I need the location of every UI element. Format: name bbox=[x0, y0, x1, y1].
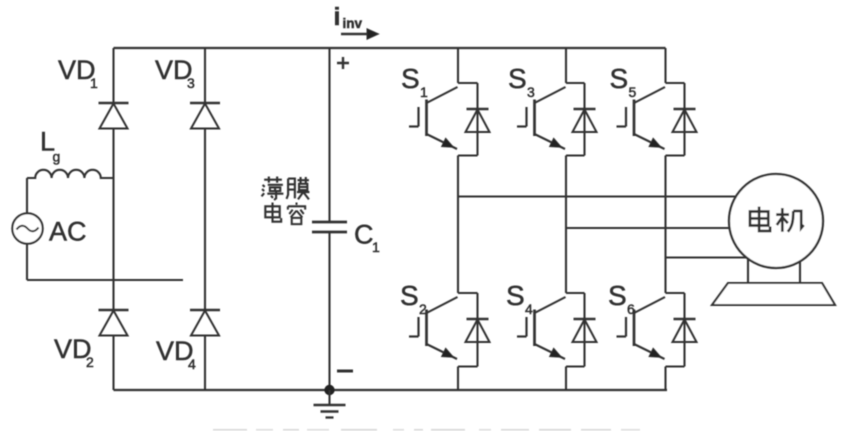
svg-text:C: C bbox=[354, 220, 374, 250]
svg-text:S: S bbox=[610, 63, 629, 94]
svg-text:3: 3 bbox=[527, 84, 535, 100]
svg-text:2: 2 bbox=[86, 354, 94, 370]
svg-text:AC: AC bbox=[49, 217, 87, 247]
svg-text:4: 4 bbox=[188, 356, 196, 372]
svg-text:S: S bbox=[508, 63, 527, 94]
svg-text:i: i bbox=[334, 3, 341, 31]
svg-text:3: 3 bbox=[187, 75, 195, 91]
svg-text:2: 2 bbox=[419, 301, 427, 317]
svg-text:S: S bbox=[400, 280, 419, 311]
svg-text:1: 1 bbox=[372, 239, 380, 255]
svg-text:4: 4 bbox=[525, 301, 533, 317]
svg-text:g: g bbox=[53, 149, 61, 165]
svg-text:inv: inv bbox=[343, 16, 363, 31]
svg-text:1: 1 bbox=[90, 75, 98, 91]
svg-text:S: S bbox=[401, 63, 420, 94]
svg-text:6: 6 bbox=[627, 301, 635, 317]
svg-text:S: S bbox=[506, 280, 525, 311]
svg-text:5: 5 bbox=[629, 84, 637, 100]
svg-text:1: 1 bbox=[420, 84, 428, 100]
svg-text:S: S bbox=[608, 280, 627, 311]
